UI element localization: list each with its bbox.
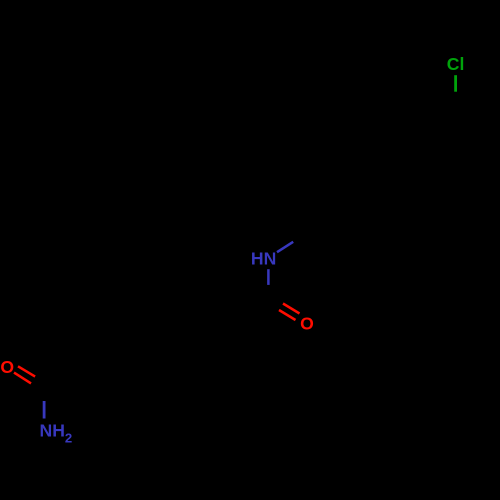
bond N-CH2 (blue half, diagonal up-right) xyxy=(277,242,293,252)
double bond O=C lower red line (left cluster) xyxy=(14,373,31,384)
bond N-C(=O) (blue half, vertical) xyxy=(267,269,270,285)
double bond C=O upper red line xyxy=(283,304,300,314)
double bond O=C upper red line (left cluster) xyxy=(18,366,35,376)
double bond C=O lower red line xyxy=(279,310,296,320)
svg-text:HN: HN xyxy=(251,248,276,268)
bond C-NH2 (blue half, vertical) xyxy=(43,401,46,419)
svg-text:O: O xyxy=(0,357,14,377)
bond Cl-C (green half, vertical) xyxy=(454,75,457,92)
svg-text:Cl: Cl xyxy=(447,54,465,74)
svg-text:O: O xyxy=(300,314,314,334)
